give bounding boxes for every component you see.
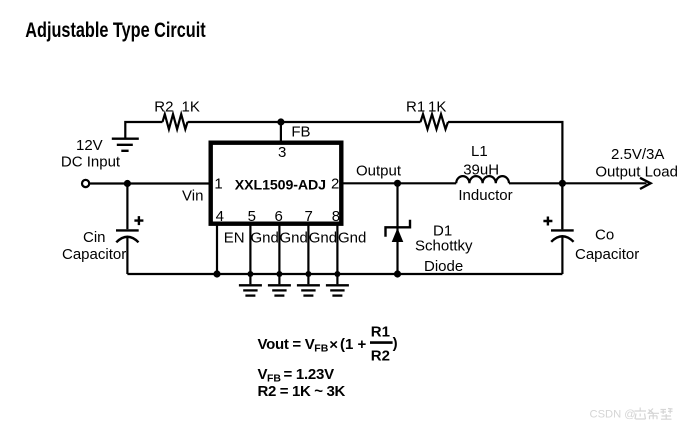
svg-text:6: 6 bbox=[275, 208, 283, 225]
svg-text:CSDN @: CSDN @ bbox=[590, 409, 636, 421]
svg-text:8: 8 bbox=[332, 208, 340, 225]
svg-text:FB: FB bbox=[291, 124, 310, 141]
svg-text:1K: 1K bbox=[182, 98, 200, 115]
svg-text:1K: 1K bbox=[428, 98, 446, 115]
svg-text:4: 4 bbox=[216, 208, 224, 225]
svg-text:R2: R2 bbox=[154, 98, 173, 115]
svg-text:(1 +: (1 + bbox=[340, 336, 367, 353]
svg-text:39uH: 39uH bbox=[463, 161, 499, 178]
svg-text:): ) bbox=[393, 335, 398, 352]
svg-text:×: × bbox=[329, 337, 338, 354]
svg-text:Capacitor: Capacitor bbox=[575, 246, 639, 263]
svg-text:R1: R1 bbox=[406, 98, 425, 115]
svg-text:Gnd: Gnd bbox=[251, 229, 279, 246]
svg-text:Gnd: Gnd bbox=[280, 229, 308, 246]
svg-text:V: V bbox=[258, 366, 268, 383]
svg-text:XXL1509-ADJ: XXL1509-ADJ bbox=[235, 178, 326, 194]
svg-text:5: 5 bbox=[248, 208, 256, 225]
svg-text:Inductor: Inductor bbox=[458, 187, 512, 204]
svg-text:1: 1 bbox=[214, 175, 222, 192]
svg-text:Gnd: Gnd bbox=[309, 229, 337, 246]
svg-text:2: 2 bbox=[331, 175, 339, 192]
svg-text:Gnd: Gnd bbox=[338, 229, 366, 246]
svg-text:Output: Output bbox=[356, 162, 402, 179]
svg-text:DC Input: DC Input bbox=[61, 153, 121, 170]
svg-text:Vin: Vin bbox=[182, 187, 203, 204]
svg-text:Capacitor: Capacitor bbox=[62, 246, 126, 263]
svg-text:Schottky: Schottky bbox=[415, 238, 473, 255]
svg-text:R1: R1 bbox=[371, 323, 390, 340]
svg-text:7: 7 bbox=[305, 208, 313, 225]
svg-text:L1: L1 bbox=[471, 143, 488, 160]
svg-text:12V: 12V bbox=[76, 137, 103, 154]
svg-text:Adjustable Type Circuit: Adjustable Type Circuit bbox=[25, 18, 206, 41]
svg-text:Output Load: Output Load bbox=[595, 164, 678, 181]
svg-text:FB: FB bbox=[314, 342, 328, 354]
svg-text:R2: R2 bbox=[371, 348, 390, 365]
svg-text:R2 = 1K ~ 3K: R2 = 1K ~ 3K bbox=[258, 383, 346, 400]
svg-text:Co: Co bbox=[595, 227, 614, 244]
svg-text:Vout = V: Vout = V bbox=[258, 336, 315, 353]
svg-text:2.5V/3A: 2.5V/3A bbox=[611, 146, 664, 163]
svg-text:= 1.23V: = 1.23V bbox=[284, 366, 335, 383]
svg-text:Diode: Diode bbox=[424, 258, 463, 275]
svg-text:3: 3 bbox=[278, 144, 286, 161]
svg-text:EN: EN bbox=[224, 229, 245, 246]
svg-text:Cin: Cin bbox=[83, 229, 106, 246]
